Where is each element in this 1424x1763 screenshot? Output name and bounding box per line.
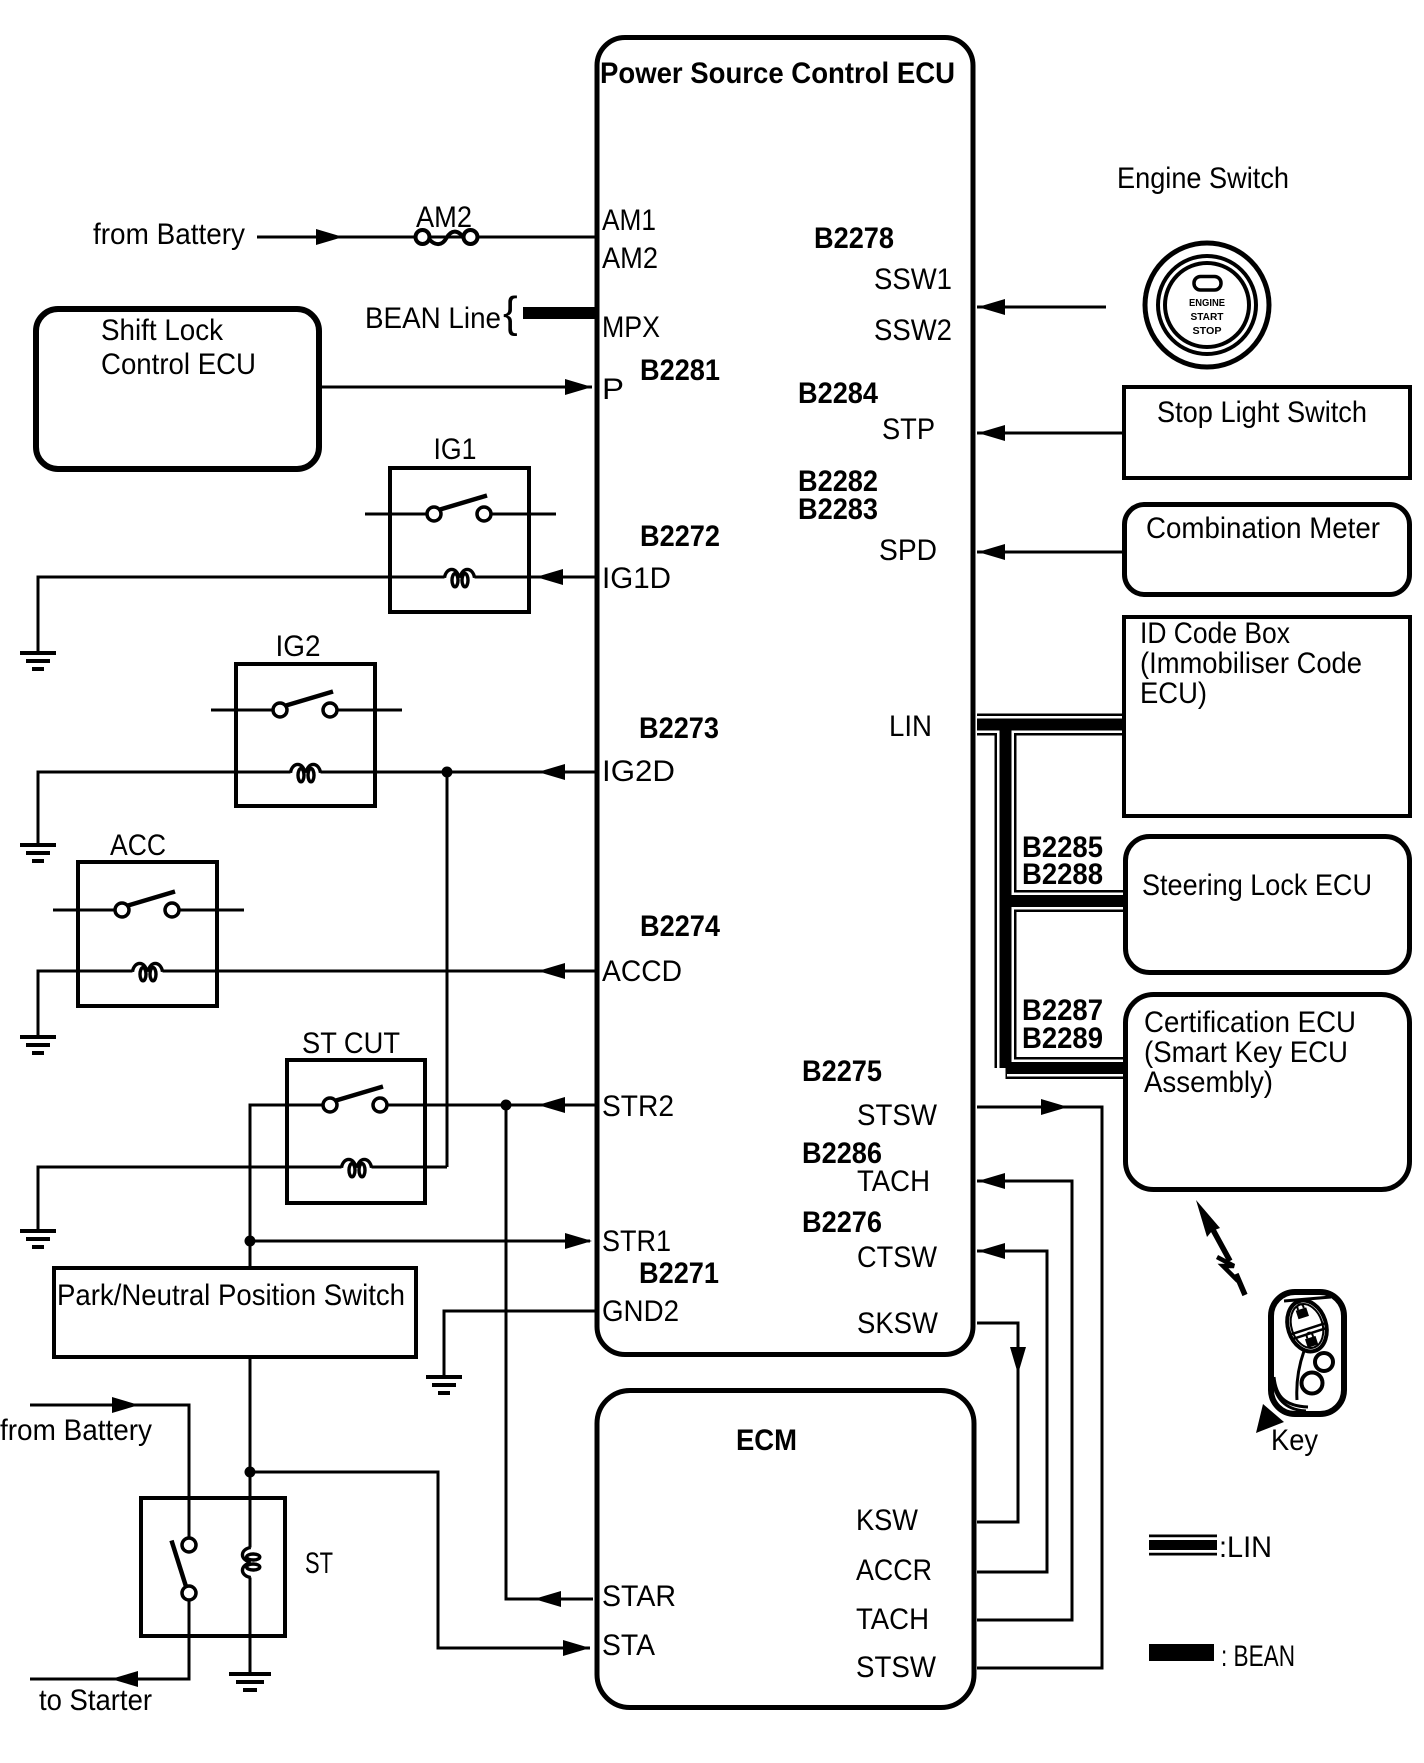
arrowhead on STR2 wire — [538, 1097, 565, 1113]
arrowhead on IG2D wire — [538, 764, 565, 780]
svg-text:CTSW: CTSW — [857, 1241, 938, 1274]
relay IG1 — [365, 468, 556, 612]
switch contacts IG2 — [273, 703, 287, 717]
ground for ST CUT coil — [20, 1231, 56, 1247]
arrowhead into SPD pin — [978, 544, 1005, 560]
wire ST CUT coil to ground — [38, 1167, 447, 1229]
svg-text:SSW1: SSW1 — [874, 263, 952, 296]
svg-text:B2278: B2278 — [814, 222, 894, 255]
switch contacts ACC — [115, 903, 129, 917]
svg-text:AM2: AM2 — [416, 201, 472, 234]
arrowhead from Battery (top) — [316, 229, 343, 245]
coil IG1 — [445, 569, 475, 586]
ECU U6 Steering Lock ECU box — [1126, 837, 1410, 973]
ground for GND2 — [426, 1377, 462, 1393]
svg-text:B2275: B2275 — [802, 1055, 882, 1088]
svg-text:Control ECU: Control ECU — [101, 348, 256, 381]
svg-text:START: START — [1191, 312, 1224, 323]
svg-text:TACH: TACH — [857, 1165, 930, 1198]
svg-text:B2271: B2271 — [639, 1257, 719, 1290]
wire ACC coil to ground — [38, 971, 595, 1035]
svg-text:ST CUT: ST CUT — [302, 1027, 400, 1060]
svg-text:Key: Key — [1271, 1424, 1318, 1457]
svg-text:B2273: B2273 — [639, 712, 719, 745]
svg-text:B2272: B2272 — [640, 520, 720, 553]
switch contacts ST — [182, 1538, 196, 1552]
arrowhead into P pin — [565, 379, 592, 395]
svg-text:GND2: GND2 — [602, 1295, 679, 1328]
svg-text:KSW: KSW — [856, 1504, 919, 1537]
svg-text:B2276: B2276 — [802, 1206, 882, 1239]
svg-text:Stop Light Switch: Stop Light Switch — [1157, 396, 1367, 429]
legend BEAN line sample — [1149, 1644, 1214, 1661]
arrowhead on ACCD wire — [538, 963, 565, 979]
svg-text:Power Source Control ECU: Power Source Control ECU — [600, 57, 955, 90]
relay IG2 — [211, 664, 402, 806]
svg-text:B2274: B2274 — [640, 910, 720, 943]
coil ST CUT — [342, 1159, 372, 1176]
wire ACC switch stubs — [53, 909, 244, 912]
svg-text:B2289: B2289 — [1022, 1022, 1103, 1055]
ground for IG2 coil — [20, 845, 56, 861]
wire IG1 switch stubs — [365, 513, 556, 516]
fuse AM2 — [416, 230, 478, 244]
svg-text:IG1: IG1 — [434, 433, 477, 466]
wire BEAN line into MPX (thick) — [503, 288, 595, 337]
wire ECU STSW down to ECM STSW — [977, 1107, 1102, 1668]
svg-text:Combination Meter: Combination Meter — [1146, 512, 1380, 545]
svg-text:STA: STA — [602, 1629, 655, 1662]
svg-text:ACCR: ACCR — [856, 1554, 932, 1587]
wire IG2 switch stubs — [211, 709, 402, 712]
svg-text:ST: ST — [305, 1547, 333, 1580]
key fob icon — [1256, 1292, 1344, 1433]
svg-text:Assembly): Assembly) — [1144, 1066, 1273, 1099]
svg-text:STR2: STR2 — [602, 1090, 674, 1123]
svg-text:ECU): ECU) — [1140, 677, 1207, 710]
svg-text:B2284: B2284 — [798, 377, 878, 410]
arrowhead on ECM STAR wire — [534, 1591, 561, 1607]
wire LIN bus (striped) — [977, 725, 1123, 1069]
svg-text:Certification ECU: Certification ECU — [1144, 1006, 1356, 1039]
svg-text:{: { — [503, 288, 518, 337]
svg-text:ENGINE: ENGINE — [1189, 298, 1225, 309]
arrowhead into STR1 pin — [565, 1233, 592, 1249]
ECU U2 ECM box — [597, 1391, 974, 1708]
svg-text:SPD: SPD — [879, 534, 937, 567]
svg-text:ACC: ACC — [110, 829, 166, 862]
wire from Battery (bottom) into ST switch — [30, 1405, 189, 1538]
ECU U3 Shift Lock Control ECU box — [36, 309, 319, 469]
node junction on IG2D line — [442, 767, 453, 778]
svg-text:Park/Neutral Position Switch: Park/Neutral Position Switch — [57, 1279, 405, 1312]
svg-text:AM2: AM2 — [602, 242, 658, 275]
coil ACC — [133, 963, 163, 980]
wire ST CUT switch stub — [387, 1104, 452, 1107]
svg-text:ECM: ECM — [736, 1424, 797, 1457]
relay ST — [141, 1498, 285, 1636]
wire STR2 junction down to ECM STAR — [506, 1105, 593, 1599]
svg-text:BEAN Line: BEAN Line — [365, 302, 501, 335]
coil ST — [242, 1548, 259, 1578]
svg-text:STSW: STSW — [856, 1651, 937, 1684]
legend LIN line sample — [1149, 1535, 1217, 1556]
wire GND2 to ground — [444, 1311, 595, 1375]
ECU U1 Power Source Control ECU box — [597, 38, 973, 1355]
svg-text:SSW2: SSW2 — [874, 314, 952, 347]
node junction on ST feed line — [245, 1467, 256, 1478]
arrowhead on IG1D wire — [536, 569, 563, 585]
switch contacts IG1 — [427, 507, 441, 521]
svg-text:Shift Lock: Shift Lock — [101, 314, 224, 347]
wire from Battery to AM1/AM2 pins — [257, 236, 595, 239]
svg-text:STP: STP — [882, 413, 935, 446]
wire ECU TACH down to ECM TACH — [977, 1181, 1072, 1620]
svg-text:STAR: STAR — [602, 1580, 676, 1613]
svg-text:B2288: B2288 — [1022, 858, 1103, 891]
svg-text::LIN: :LIN — [1219, 1531, 1272, 1564]
wire Shift Lock ECU to P pin — [319, 386, 592, 389]
wire Park/Neutral down through ST coil to ground — [249, 1357, 252, 1672]
meter U4 Combination Meter box — [1125, 505, 1410, 595]
wire STR2 from ECU through ST CUT switch — [250, 1105, 595, 1266]
svg-text:IG2: IG2 — [276, 630, 321, 663]
ECU U5 ID Code Box (Immobiliser Code ECU) — [1124, 617, 1410, 816]
relay ACC — [53, 862, 244, 1006]
switch S2 Park/Neutral Position Switch box — [54, 1268, 416, 1357]
lightning arrow to Certification ECU — [1196, 1200, 1245, 1295]
svg-text:AM1: AM1 — [602, 204, 656, 237]
node junction on STR2 line — [501, 1100, 512, 1111]
arrowhead into ECU TACH pin — [978, 1173, 1005, 1189]
ECU U7 Certification ECU (Smart Key ECU Assembly) box — [1126, 995, 1410, 1190]
arrowhead on ECU STSW wire — [1041, 1099, 1068, 1115]
svg-text:: BEAN: : BEAN — [1221, 1640, 1295, 1673]
wire ECU SKSW down to ECM KSW — [977, 1323, 1018, 1522]
wire ECU CTSW down to ECM ACCR — [977, 1251, 1047, 1572]
arrowhead on SKSW wire pointing down — [1010, 1347, 1026, 1374]
wire STR1 from Park/Neutral junction to ECU — [250, 1240, 590, 1243]
svg-text:STOP: STOP — [1193, 326, 1222, 337]
engine switch button icon — [1145, 243, 1269, 367]
wire STP from Stop Light Switch — [977, 432, 1122, 435]
svg-text:Steering Lock ECU: Steering Lock ECU — [1142, 869, 1372, 902]
arrowhead from Battery (bottom) — [112, 1397, 139, 1413]
ground for ACC coil — [20, 1037, 56, 1053]
arrowhead into ECU CTSW pin — [978, 1243, 1005, 1259]
svg-text:Engine Switch: Engine Switch — [1117, 162, 1289, 195]
arrowhead into SSW pin — [978, 299, 1005, 315]
wire IG2D branch down to ST CUT coil — [446, 773, 449, 1167]
wire IG2 coil to ground — [38, 772, 595, 843]
svg-text:ID Code Box: ID Code Box — [1140, 617, 1290, 650]
wire SPD from Combination Meter — [977, 551, 1122, 554]
wire IG1 coil to ground — [38, 577, 595, 651]
arrowhead into STP pin — [978, 425, 1005, 441]
svg-text:LIN: LIN — [889, 710, 932, 743]
ground for IG1 coil — [20, 653, 56, 669]
wire junction to ECM STA — [250, 1472, 590, 1648]
relay ST CUT — [287, 1060, 452, 1203]
svg-text:STR1: STR1 — [602, 1225, 671, 1258]
wire SSW1/SSW2 from engine switch — [977, 306, 1106, 309]
svg-text:(Smart Key ECU: (Smart Key ECU — [1144, 1036, 1348, 1069]
svg-text:STSW: STSW — [857, 1099, 938, 1132]
ground for ST coil — [229, 1674, 271, 1690]
svg-text:ACCD: ACCD — [602, 955, 682, 988]
svg-text:from Battery: from Battery — [0, 1414, 152, 1447]
svg-text:MPX: MPX — [602, 311, 660, 344]
wire ST switch to Starter — [30, 1600, 189, 1679]
svg-text:B2283: B2283 — [798, 493, 878, 526]
svg-text:(Immobiliser Code: (Immobiliser Code — [1140, 647, 1362, 680]
svg-text:IG1D: IG1D — [602, 562, 671, 595]
svg-text:to Starter: to Starter — [39, 1684, 152, 1717]
arrowhead into ECM STA pin — [563, 1640, 590, 1656]
coil IG2 — [291, 764, 321, 781]
switch contacts ST CUT — [323, 1098, 337, 1112]
svg-text:SKSW: SKSW — [857, 1307, 939, 1340]
svg-text:TACH: TACH — [856, 1603, 929, 1636]
svg-text:IG2D: IG2D — [602, 755, 675, 788]
svg-text:from Battery: from Battery — [93, 218, 245, 251]
node junction on STR1 line — [245, 1236, 256, 1247]
svg-text:P: P — [602, 373, 624, 406]
switch S1 Stop Light Switch box — [1124, 387, 1410, 478]
arrowhead to Starter — [111, 1671, 138, 1687]
svg-text:B2281: B2281 — [640, 354, 720, 387]
